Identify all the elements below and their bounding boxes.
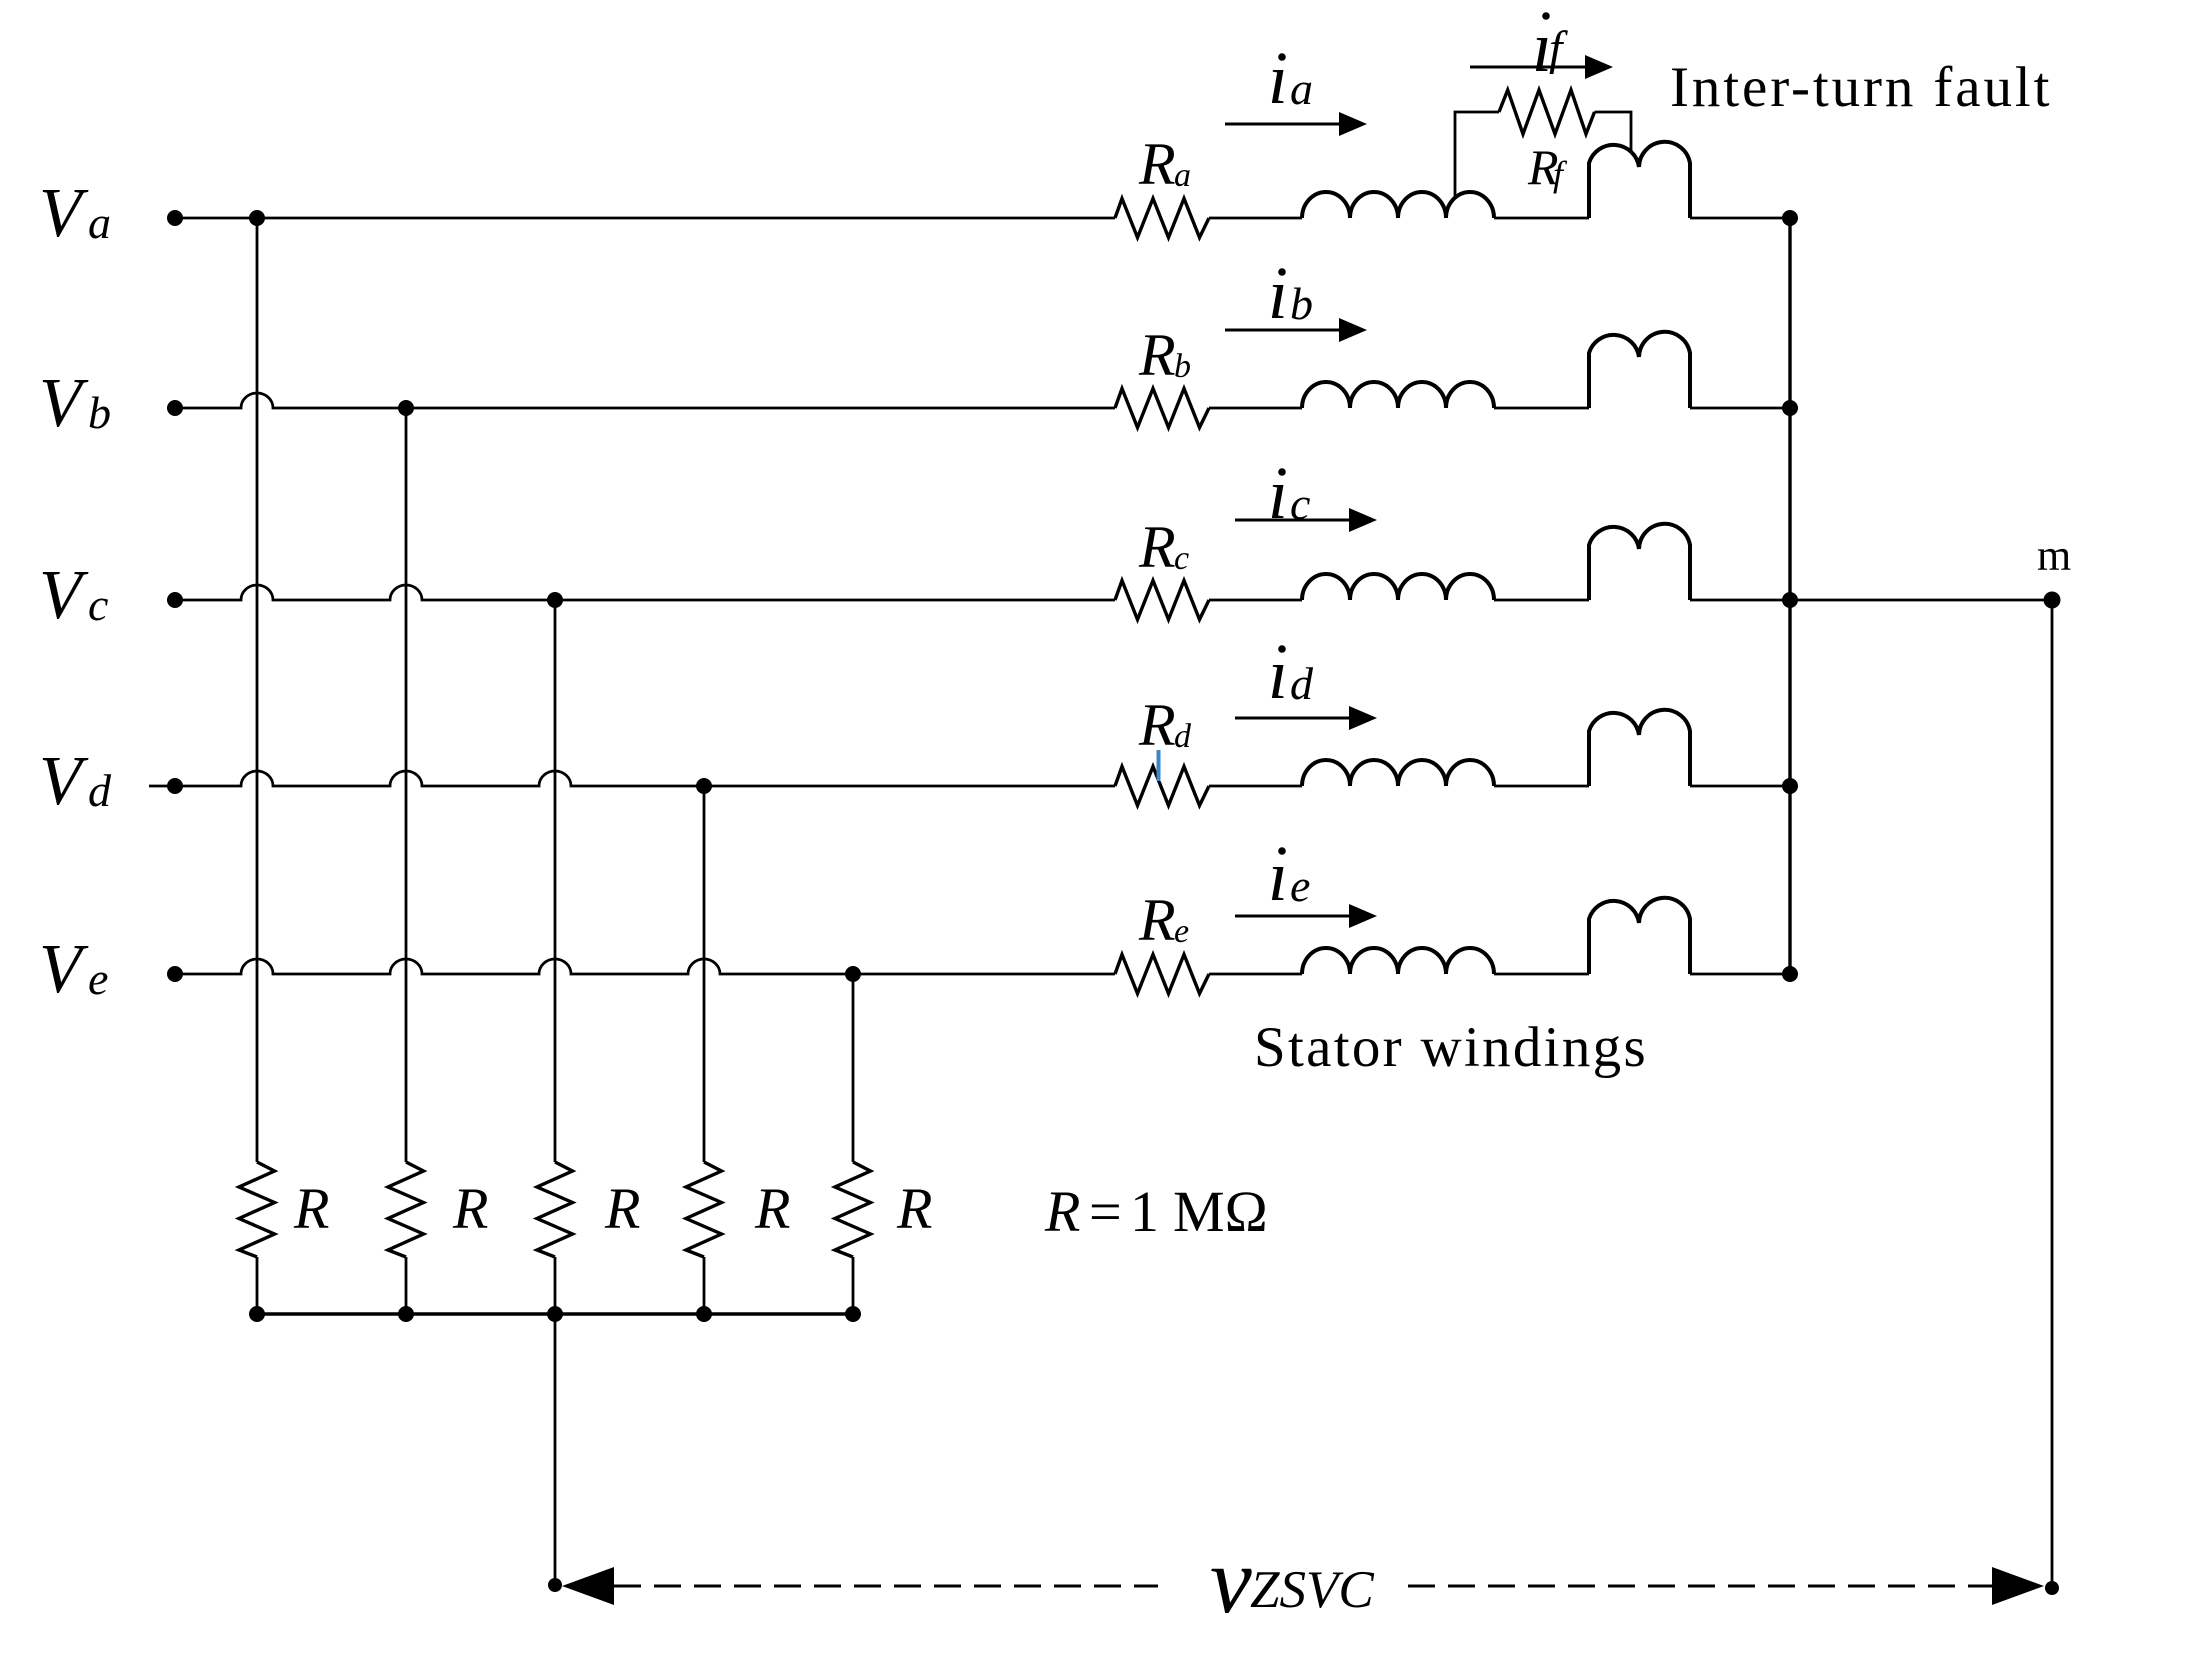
svg-text:ı: ı: [1268, 634, 1288, 714]
inductor winding b2: [1589, 332, 1690, 408]
svg-text:d: d: [1174, 718, 1192, 755]
bus node row c: [1782, 592, 1798, 608]
junction node phase b: [398, 400, 414, 416]
bottom bus node 4: [696, 1306, 712, 1322]
bottom bus node 2: [398, 1306, 414, 1322]
resistor R (pull-down 3): [537, 1162, 573, 1257]
node neutral end: [548, 1578, 562, 1592]
wire b to bus: [1690, 407, 1790, 410]
inductor winding b1: [1302, 382, 1494, 408]
svg-text:MΩ: MΩ: [1173, 1179, 1268, 1244]
node vZSVC right end: [2045, 1581, 2059, 1595]
resistor Rb: [1115, 389, 1209, 428]
svg-text:ı: ı: [1268, 454, 1288, 534]
svg-text:R: R: [896, 1176, 932, 1241]
wire below resistor 4: [703, 1257, 706, 1314]
svg-text:e: e: [88, 953, 108, 1004]
wire d mid: [1209, 785, 1589, 788]
wire below resistor 2: [405, 1257, 408, 1314]
wire a to bus: [1690, 217, 1790, 220]
svg-text:R: R: [293, 1176, 329, 1241]
dashed line vZSVC left: [614, 1585, 1158, 1588]
svg-text:ZSVC: ZSVC: [1250, 1561, 1374, 1619]
svg-text:c: c: [88, 579, 108, 630]
junction node phase e: [845, 966, 861, 982]
inductor winding e1: [1302, 948, 1494, 974]
inductor winding a2: [1589, 142, 1690, 218]
resistor R (pull-down 4): [686, 1162, 722, 1257]
wire bus to m: [1790, 599, 2052, 602]
svg-text:V: V: [39, 175, 89, 252]
wire fault tap right leg: [1595, 112, 1632, 152]
inductor winding d1: [1302, 760, 1494, 786]
svg-text:R: R: [1138, 692, 1176, 758]
junction node phase a: [249, 210, 265, 226]
svg-text:R: R: [452, 1176, 488, 1241]
inductor winding c1: [1302, 574, 1494, 600]
svg-text:V: V: [39, 743, 89, 820]
svg-text:ı: ı: [1268, 254, 1288, 334]
current arrow if: [1470, 66, 1587, 69]
resistor Rc: [1115, 581, 1209, 620]
svg-text:v: v: [1210, 1529, 1252, 1633]
node m: [2044, 592, 2061, 609]
wire dropper column x=257: [256, 218, 259, 1162]
svg-text:a: a: [88, 197, 111, 248]
current arrow ie: [1235, 915, 1351, 918]
bottom bus node 5: [845, 1306, 861, 1322]
inductor winding d2: [1589, 710, 1690, 786]
wire e mid: [1209, 973, 1589, 976]
inductor winding a1: [1302, 192, 1494, 218]
svg-text:V: V: [39, 365, 89, 442]
svg-text:e: e: [1174, 913, 1189, 950]
svg-text:b: b: [88, 387, 111, 438]
svg-text:V: V: [39, 557, 89, 634]
terminal node Vd: [167, 778, 183, 794]
bus node row e: [1782, 966, 1798, 982]
wire below resistor 1: [256, 1257, 259, 1314]
wire neutral dropper: [554, 1314, 557, 1586]
junction node phase c: [547, 592, 563, 608]
wire Va phase line: [175, 217, 1115, 220]
wire right bus: [1788, 218, 1791, 974]
wire c mid: [1209, 599, 1589, 602]
marker blue tick under Rd: [1157, 750, 1161, 781]
svg-text:c: c: [1290, 478, 1310, 529]
wire m vertical: [2051, 600, 2054, 1588]
current arrow ia: [1225, 123, 1341, 126]
svg-text:b: b: [1174, 348, 1191, 385]
svg-text:ı: ı: [1268, 39, 1288, 119]
bottom bus node 3: [547, 1306, 563, 1322]
svg-text:R: R: [1138, 514, 1176, 580]
svg-text:c: c: [1174, 540, 1189, 577]
svg-text:1: 1: [1130, 1179, 1159, 1244]
wire fault tap left leg: [1455, 112, 1499, 199]
bottom bus node 1: [249, 1306, 265, 1322]
resistor Rf: [1499, 90, 1595, 134]
resistor Ra: [1115, 199, 1209, 238]
svg-text:Inter-turn fault: Inter-turn fault: [1670, 56, 2052, 119]
svg-text:Stator windings: Stator windings: [1254, 1016, 1648, 1079]
resistor R (pull-down 2): [388, 1162, 424, 1257]
svg-text:R: R: [754, 1176, 790, 1241]
terminal node Ve: [167, 966, 183, 982]
wire Vb phase line with hop: [175, 393, 1115, 408]
arrow vZSVC right head: [1992, 1567, 2044, 1605]
wire dropper column x=555: [554, 600, 557, 1162]
wire d to bus: [1690, 785, 1790, 788]
svg-text:R: R: [1138, 131, 1176, 197]
svg-text:e: e: [1290, 860, 1310, 911]
svg-text:V: V: [39, 931, 89, 1008]
wire dropper column x=704: [703, 786, 706, 1162]
resistor R (pull-down 1): [239, 1162, 275, 1257]
terminal node Va: [167, 210, 183, 226]
bus node row b: [1782, 400, 1798, 416]
svg-text:m: m: [2037, 531, 2071, 580]
wire c to bus: [1690, 599, 1790, 602]
bus node row d: [1782, 778, 1798, 794]
resistor Re: [1115, 955, 1209, 994]
svg-text:R: R: [604, 1176, 640, 1241]
svg-text:b: b: [1290, 278, 1313, 329]
arrow vZSVC left head: [562, 1567, 614, 1605]
wire e to bus: [1690, 973, 1790, 976]
wire Ve phase line with hops: [175, 959, 1115, 974]
svg-text:a: a: [1174, 157, 1191, 194]
current arrow ib: [1225, 329, 1341, 332]
wire below resistor 3: [554, 1257, 557, 1314]
svg-text:R: R: [1138, 887, 1176, 953]
svg-text:d: d: [88, 765, 112, 816]
junction node phase d: [696, 778, 712, 794]
wire Vc phase line with hops: [175, 585, 1115, 600]
svg-text:ı: ı: [1268, 836, 1288, 916]
dashed line vZSVC right: [1408, 1585, 1994, 1588]
inductor winding e2: [1589, 898, 1690, 974]
current arrow id: [1235, 717, 1351, 720]
current arrow ic: [1235, 519, 1351, 522]
wire a mid: [1209, 217, 1589, 220]
bus node row a: [1782, 210, 1798, 226]
svg-text:R: R: [1044, 1179, 1080, 1244]
wire below resistor 5: [852, 1257, 855, 1314]
wire dropper column x=406: [405, 408, 408, 1162]
svg-text:d: d: [1290, 658, 1314, 709]
svg-text:a: a: [1290, 63, 1313, 114]
wire Vd phase line with hops: [149, 771, 1115, 786]
wire dropper column x=853: [852, 974, 855, 1162]
terminal node Vb: [167, 400, 183, 416]
resistor R (pull-down 5): [835, 1162, 871, 1257]
svg-text:R: R: [1138, 322, 1176, 388]
svg-text:f: f: [1553, 154, 1568, 194]
wire b mid: [1209, 407, 1589, 410]
svg-text:=: =: [1089, 1179, 1122, 1244]
inductor winding c2: [1589, 524, 1690, 600]
resistor Rd: [1115, 767, 1209, 806]
wire bottom bus: [257, 1312, 853, 1315]
terminal node Vc: [167, 592, 183, 608]
